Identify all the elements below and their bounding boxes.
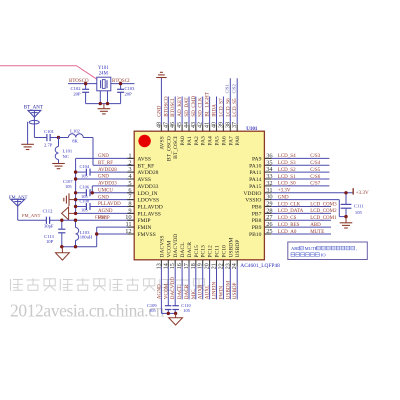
svg-text:PA1: PA1 <box>187 136 193 146</box>
svg-text:FMIP: FMIP <box>98 216 110 221</box>
svg-text:FMIP: FMIP <box>137 218 150 224</box>
svg-text:LCD_S6: LCD_S6 <box>225 98 231 117</box>
label BT_ANT <box>24 106 43 111</box>
capacitor C111 <box>341 193 352 217</box>
svg-text:PB10: PB10 <box>249 232 262 238</box>
svg-text:105: 105 <box>81 173 88 178</box>
svg-text:DACL: DACL <box>177 285 183 299</box>
svg-text:C/S4: C/S4 <box>310 161 321 166</box>
svg-text:DACL: DACL <box>180 242 186 258</box>
svg-text:PB9: PB9 <box>252 225 262 231</box>
svg-text:BTOSCI: BTOSCI <box>170 98 176 117</box>
svg-text:C/S6: C/S6 <box>310 175 321 180</box>
svg-text:30pF: 30pF <box>44 223 54 228</box>
svg-text:PA15: PA15 <box>249 184 261 190</box>
antenna BT_ANT <box>28 110 41 137</box>
svg-text:PC10: PC10 <box>221 245 227 258</box>
junction dots FM section <box>60 219 98 249</box>
capacitor C102 <box>82 84 89 104</box>
svg-text:C/S5: C/S5 <box>310 168 321 173</box>
svg-text:AVSS: AVSS <box>137 156 151 162</box>
svg-text:USBDP: USBDP <box>232 282 238 299</box>
label FM_ANT (designator) <box>9 194 28 199</box>
svg-text:8K: 8K <box>72 139 78 144</box>
svg-text:LCD_COM1: LCD_COM1 <box>310 216 337 221</box>
svg-text:PB8: PB8 <box>252 218 262 224</box>
IC left internal pin names <box>137 156 162 238</box>
inductor L101 <box>55 138 58 164</box>
svg-text:AGND: AGND <box>156 284 162 299</box>
svg-text:FMVSS: FMVSS <box>137 232 155 238</box>
junction dots crystal <box>84 82 122 105</box>
svg-text:DACR: DACR <box>184 284 190 299</box>
svg-text:DACVDD: DACVDD <box>170 277 176 299</box>
net label BTOSCI (crystal right) <box>112 79 130 84</box>
IC pin-1 marker (red circle) <box>138 135 150 147</box>
svg-text:GND: GND <box>156 105 162 116</box>
IC U101 body <box>134 131 264 260</box>
svg-text:L102: L102 <box>70 129 80 134</box>
IC bottom pin stubs <box>161 260 237 267</box>
ground earth (pin7 row, rotated) <box>64 193 76 206</box>
svg-text:2012avesia.cn.china.cn: 2012avesia.cn.china.cn <box>10 301 165 321</box>
svg-text:PA3: PA3 <box>201 136 207 146</box>
wire crystal ground bus <box>86 91 121 104</box>
svg-text:LCD_CS: LCD_CS <box>278 216 297 221</box>
IC right internal pin names <box>243 156 261 238</box>
svg-text:Y101: Y101 <box>98 66 109 71</box>
wire pin1 GND to rail <box>76 157 135 159</box>
svg-text:PC15: PC15 <box>194 245 200 258</box>
capacitor C104 <box>76 169 135 176</box>
ground (crystal) <box>98 104 111 114</box>
svg-text:LCD_S1: LCD_S1 <box>278 175 296 180</box>
svg-text:C103: C103 <box>125 86 136 91</box>
svg-text:C102: C102 <box>71 86 82 91</box>
svg-text:FM_ANT: FM_ANT <box>22 213 41 218</box>
wire pin7 GND <box>76 199 135 201</box>
wire BT_ANT ground leg <box>27 122 29 145</box>
net label FMIP <box>95 214 106 219</box>
svg-text:VDDIO: VDDIO <box>243 191 261 197</box>
svg-text:AVDD28: AVDD28 <box>98 168 117 173</box>
IC bottom pin numbers 13-24 <box>156 263 238 269</box>
svg-text:FMIN: FMIN <box>137 225 151 231</box>
label C109 105 <box>147 303 157 313</box>
svg-text:LCD_CLK: LCD_CLK <box>278 202 301 207</box>
junction dots GND rail <box>74 170 94 215</box>
net label FM_ANT <box>22 213 41 218</box>
ground (C111) <box>340 217 353 228</box>
svg-text:105: 105 <box>183 308 190 313</box>
svg-text:BL_LIGHT: BL_LIGHT <box>205 91 211 117</box>
net labels right second column <box>310 154 337 235</box>
svg-text:24M: 24M <box>99 72 109 77</box>
net labels bottom pins <box>156 277 238 299</box>
svg-text:SD_CMD: SD_CMD <box>191 96 197 117</box>
wire FMIN/FMVSS drop <box>97 227 135 247</box>
label C104 105 <box>80 164 90 178</box>
crystal Y101 <box>97 77 111 91</box>
svg-text:2.7P: 2.7P <box>44 143 53 148</box>
IC left pin numbers 1-12 <box>125 152 132 235</box>
svg-text:LCD_COM3: LCD_COM3 <box>310 202 337 207</box>
IC right pin stubs <box>264 158 271 234</box>
inductor L103 <box>76 220 79 247</box>
svg-text:PWIN: PWIN <box>218 286 224 300</box>
svg-text:20P: 20P <box>125 91 133 96</box>
svg-text:BT_OSCI: BT_OSCI <box>173 136 179 159</box>
svg-text:PLLAVSS: PLLAVSS <box>137 211 161 217</box>
svg-text:AVDD28: AVDD28 <box>137 170 158 176</box>
svg-text:C/S2: C/S2 <box>232 84 237 94</box>
net labels right pins <box>278 154 304 235</box>
svg-text:105: 105 <box>65 184 72 189</box>
svg-text:100uH: 100uH <box>80 235 93 240</box>
label C108 105 <box>80 198 90 212</box>
IC right pin numbers 36-25 <box>266 152 273 235</box>
svg-text:NC: NC <box>63 154 69 159</box>
svg-text:BT_RF: BT_RF <box>98 161 113 166</box>
svg-text:LDOVSS: LDOVSS <box>137 198 159 204</box>
svg-text:LCD_S7: LCD_S7 <box>218 98 224 117</box>
svg-text:AVDD33: AVDD33 <box>137 184 158 190</box>
svg-text:ABD: ABD <box>310 223 321 228</box>
svg-text:USBDM: USBDM <box>228 238 234 258</box>
svg-text:PA7: PA7 <box>228 136 234 146</box>
capacitor C108 <box>76 203 135 210</box>
svg-text:BT_RF: BT_RF <box>137 163 154 169</box>
wire GND (pin30) to ground <box>271 200 346 217</box>
ground (bottom, triangle) <box>169 313 183 325</box>
label C111 105 <box>354 204 364 215</box>
svg-text:USBDP: USBDP <box>235 240 241 258</box>
wire sheet connector (pink) <box>0 66 97 80</box>
svg-text:+3.3V: +3.3V <box>356 190 369 196</box>
svg-text:LCD_S3: LCD_S3 <box>278 161 296 166</box>
svg-text:BTOSCO: BTOSCO <box>163 96 169 117</box>
junction dots +3.3V net <box>344 191 347 218</box>
svg-text:12: 12 <box>125 228 131 235</box>
svg-text:PB7: PB7 <box>252 211 262 217</box>
svg-text:105: 105 <box>355 210 363 215</box>
ground (FM section) <box>56 247 70 260</box>
capacitor C103 <box>117 84 124 104</box>
ground (BT antenna) <box>21 144 34 149</box>
wire pin4 GND <box>76 178 135 180</box>
svg-text:C112: C112 <box>43 209 53 214</box>
ground (pin48, earth up) <box>156 72 166 77</box>
svg-text:AVDD33: AVDD33 <box>98 182 117 187</box>
net labels C/S1 C/S2 <box>225 84 237 94</box>
svg-text:PC12: PC12 <box>208 245 214 258</box>
wire bottom AGND bus <box>161 312 176 314</box>
svg-text:MUTE: MUTE <box>310 230 324 235</box>
label C101 2.7P <box>44 129 55 148</box>
svg-text:USBDM: USBDM <box>225 280 231 299</box>
svg-text:IO: IO <box>321 252 326 257</box>
svg-text:LCD_A0: LCD_A0 <box>278 230 297 235</box>
capacitor C110 <box>172 306 179 314</box>
capacitor C112 <box>46 217 49 224</box>
wire FM ground bus <box>62 246 97 248</box>
svg-text:C108: C108 <box>80 198 90 203</box>
svg-text:LCD_DATA: LCD_DATA <box>278 209 304 214</box>
wire BT_RF to pin 2 <box>93 138 134 166</box>
svg-text:105: 105 <box>81 208 88 213</box>
svg-text:PA4: PA4 <box>208 136 214 146</box>
svg-text:LCD_S0: LCD_S0 <box>278 182 296 187</box>
svg-text:PA2: PA2 <box>194 136 200 146</box>
svg-text:GND: GND <box>98 154 109 159</box>
svg-text:VSSIO: VSSIO <box>245 198 261 204</box>
svg-text:PA9: PA9 <box>252 156 262 162</box>
junction dots bottom caps <box>167 312 178 315</box>
label L101 NC <box>63 149 73 159</box>
wire net BTOSCO/BTOSCI through crystal Y101 <box>68 83 135 85</box>
label C110 105 <box>181 303 191 313</box>
svg-text:C104: C104 <box>80 164 90 169</box>
IC top pin stubs <box>161 124 237 131</box>
IC top pin numbers 48-37 <box>156 122 238 128</box>
svg-text:DACVSS: DACVSS <box>159 236 165 258</box>
svg-text:LCD_RES: LCD_RES <box>278 223 300 228</box>
watermark line 1 (pseudo CJK) <box>11 278 205 291</box>
svg-text:LINEIN: LINEIN <box>212 282 218 300</box>
ground triangle (pin9 row, rotated) <box>62 207 76 220</box>
svg-text:C/S3: C/S3 <box>310 154 321 159</box>
junction dot BT node <box>57 136 60 139</box>
svg-text:AVSS: AVSS <box>137 177 151 183</box>
svg-text:PA8: PA8 <box>235 136 241 146</box>
svg-text:AC4601_LQFP48: AC4601_LQFP48 <box>240 263 280 269</box>
svg-text:105: 105 <box>149 308 156 313</box>
svg-text:GND: GND <box>98 175 109 180</box>
svg-text:PA10: PA10 <box>249 163 261 169</box>
svg-text:PA11: PA11 <box>249 170 261 176</box>
svg-text:AGND: AGND <box>98 209 113 214</box>
label C103 20P <box>125 86 136 96</box>
wires top pin nets <box>161 78 237 125</box>
svg-text:PA6: PA6 <box>221 136 227 146</box>
label C106 105 <box>80 185 90 199</box>
svg-text:10P: 10P <box>46 239 54 244</box>
label C102 20P <box>71 86 82 96</box>
svg-text:MIC: MIC <box>191 289 197 299</box>
wires bottom pin nets <box>161 267 237 314</box>
capacitor C101 <box>35 134 59 141</box>
svg-text:BT_OSCO: BT_OSCO <box>166 136 172 161</box>
capacitor C113 <box>58 220 65 247</box>
svg-text:PB6: PB6 <box>252 205 262 211</box>
svg-text:IRDA: IRDA <box>212 104 218 117</box>
svg-text:C106: C106 <box>80 185 90 190</box>
svg-text:LCD_COM2: LCD_COM2 <box>310 209 337 214</box>
label Y101 24M <box>98 66 109 76</box>
net labels top pins <box>156 91 238 117</box>
capacitor C109 <box>165 306 172 314</box>
wire GND rail <box>75 158 77 213</box>
svg-text:C111: C111 <box>354 204 364 209</box>
label C113 10P <box>44 234 54 244</box>
svg-text:C/S7: C/S7 <box>310 182 321 187</box>
svg-text:20P: 20P <box>73 91 81 96</box>
svg-text:DACR: DACR <box>187 242 193 258</box>
label C112 30pF <box>43 209 54 229</box>
label AC4601_LQFP48 <box>240 263 280 269</box>
IC top internal pin names <box>159 136 241 161</box>
net labels left pins <box>98 154 121 221</box>
svg-text:VCOM: VCOM <box>166 241 172 258</box>
svg-text:PA14: PA14 <box>249 177 261 183</box>
svg-text:LCD_S4: LCD_S4 <box>278 154 296 159</box>
svg-text:MUTE: MUTE <box>305 246 318 251</box>
svg-text:DACVDD: DACVDD <box>173 234 179 258</box>
svg-text:GND: GND <box>98 195 109 200</box>
svg-text:AUXL: AUXL <box>205 285 211 299</box>
svg-text:SD_CLK: SD_CLK <box>198 97 204 117</box>
wire FM_ANT to C112 <box>18 219 47 221</box>
wire pin9 AGND <box>76 212 135 214</box>
wires right LCD nets <box>271 158 331 234</box>
antenna FM_ANT <box>11 199 25 220</box>
svg-text:AD_KEY: AD_KEY <box>177 96 183 117</box>
svg-text:BT_ANT: BT_ANT <box>24 106 43 111</box>
svg-text:C101: C101 <box>44 129 55 134</box>
wire pin5 AVDD33 jog <box>92 186 134 193</box>
svg-text:PC11: PC11 <box>215 245 221 257</box>
svg-text:SD_DAT: SD_DAT <box>184 97 190 117</box>
label U101 <box>246 127 258 132</box>
IC bottom internal pin names <box>159 234 241 258</box>
svg-text:LDO_IN: LDO_IN <box>137 191 157 197</box>
svg-text:PLLAVDD: PLLAVDD <box>137 205 162 211</box>
svg-text:C/S1: C/S1 <box>225 84 230 94</box>
wire +3.3V (pin31) <box>271 192 353 194</box>
svg-text:PC13: PC13 <box>201 245 207 258</box>
IC left pin stubs <box>127 158 134 234</box>
svg-text:FM_ANT: FM_ANT <box>9 194 28 199</box>
svg-text:UMCU: UMCU <box>98 188 113 193</box>
svg-text:U101: U101 <box>246 127 258 132</box>
label C107 105 <box>63 179 73 189</box>
svg-text:AUXR: AUXR <box>198 284 204 299</box>
note box (ABD/MUTE comment) <box>288 242 368 260</box>
svg-text:AVSS: AVSS <box>159 136 165 150</box>
svg-text:LCD_S5: LCD_S5 <box>232 98 238 117</box>
svg-text:PLLAVDD: PLLAVDD <box>98 202 121 207</box>
capacitor C106 <box>76 189 135 196</box>
power port +3.3V <box>353 188 369 196</box>
svg-text:PA0: PA0 <box>180 136 186 146</box>
wire FMIP row <box>50 219 135 221</box>
svg-text:LCD_S2: LCD_S2 <box>278 168 296 173</box>
svg-text:PA5: PA5 <box>215 136 221 146</box>
svg-text:VCOM: VCOM <box>163 283 169 299</box>
label L103 100uH <box>80 230 93 240</box>
inductor L102 <box>59 134 94 138</box>
net label BTOSCO (crystal left) <box>69 79 89 84</box>
ground (L101) <box>52 164 65 169</box>
label L102 8K <box>70 129 80 144</box>
